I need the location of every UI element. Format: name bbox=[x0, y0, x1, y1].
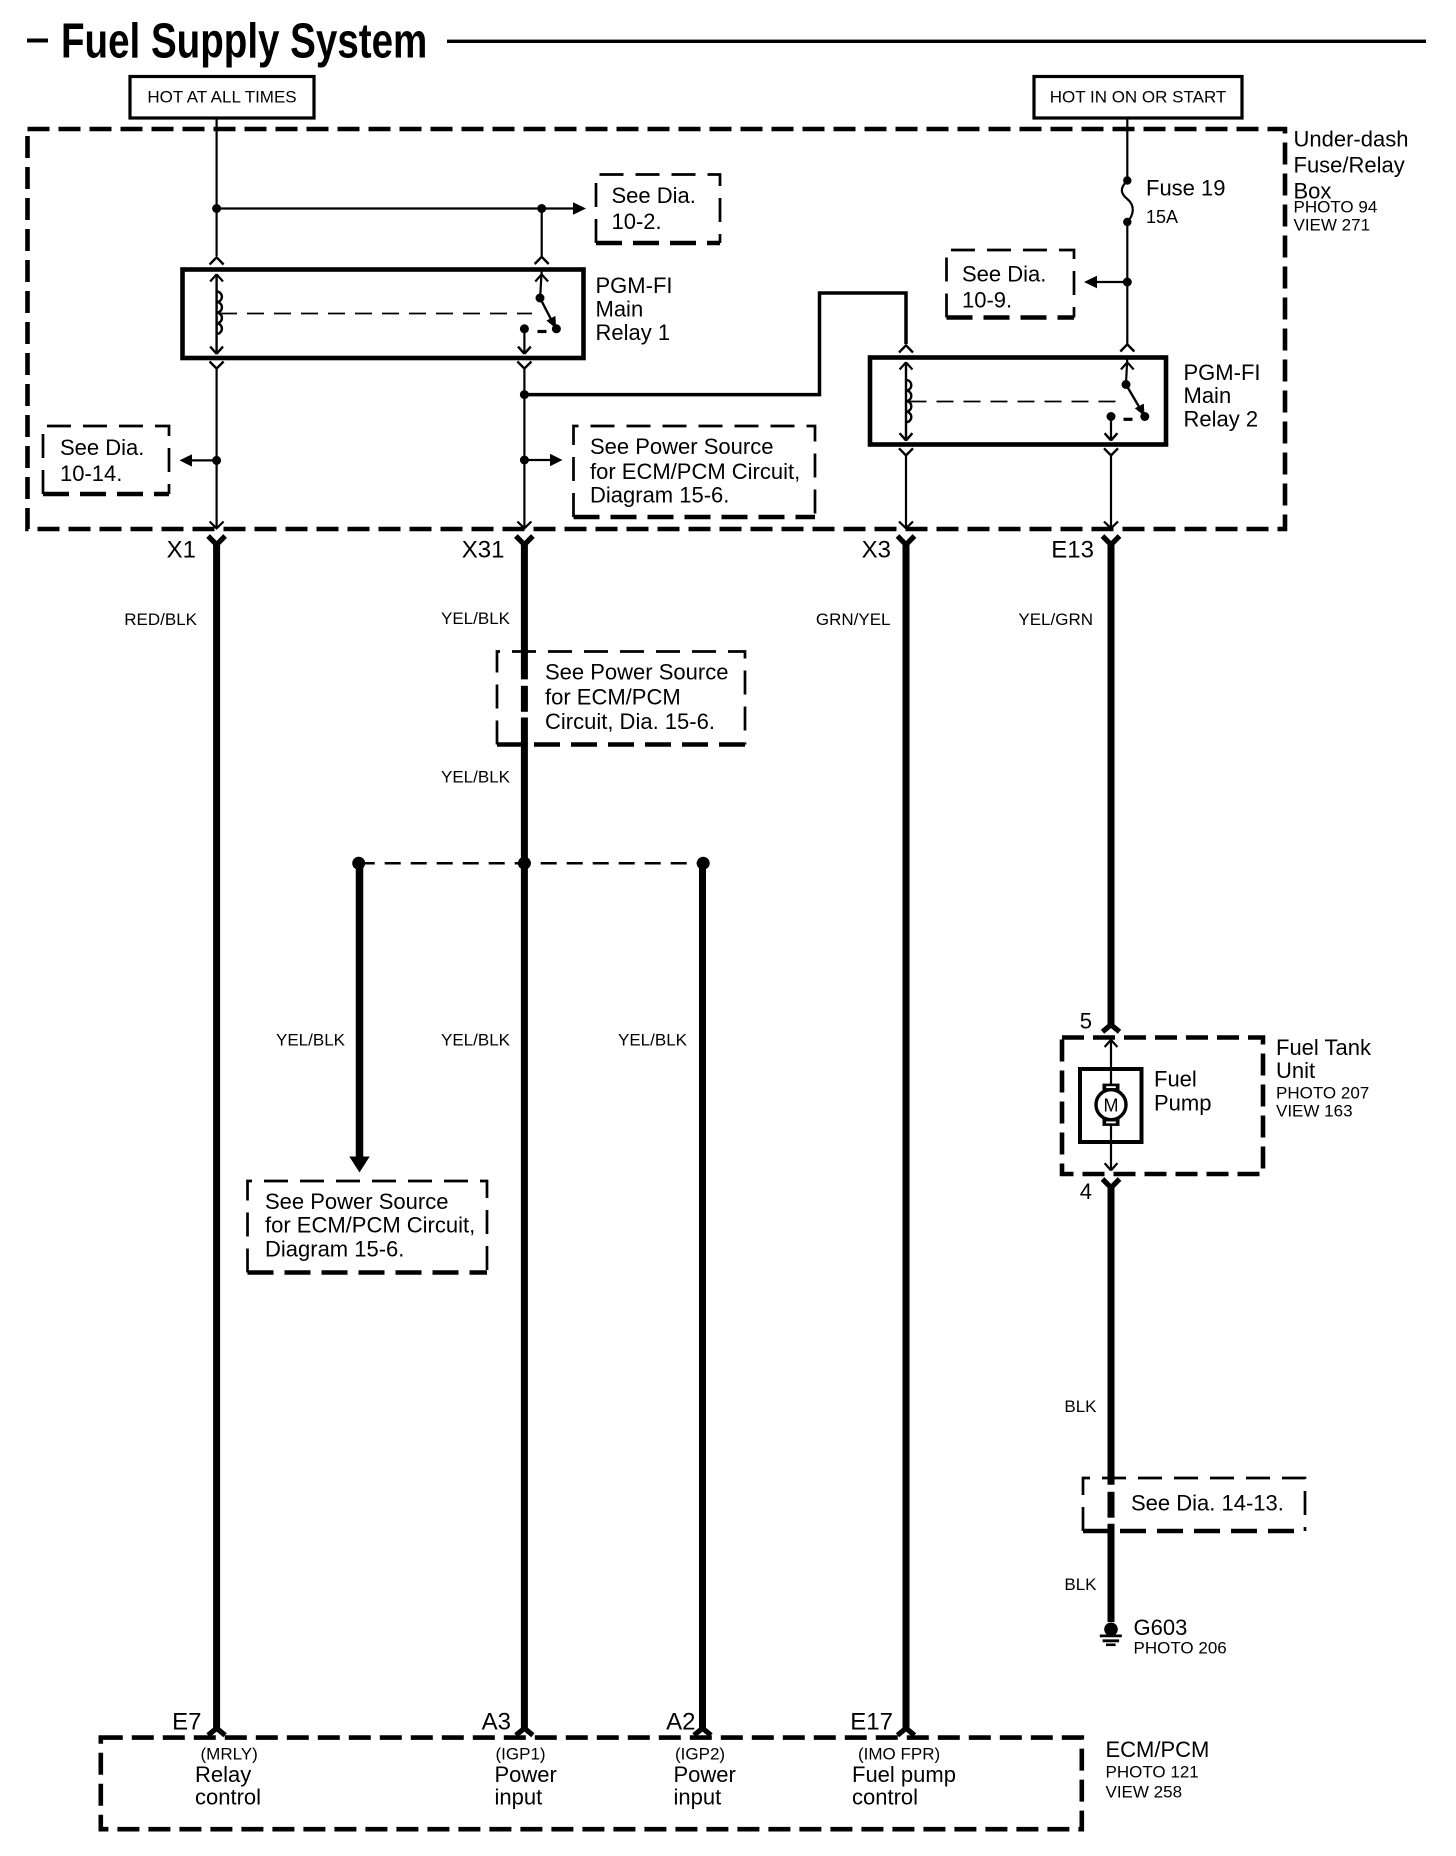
connector E17 (male) bbox=[898, 1728, 915, 1735]
svg-text:Main: Main bbox=[596, 297, 644, 322]
K1 coil bottom arrow bbox=[210, 347, 223, 354]
svg-text:A2: A2 bbox=[666, 1709, 695, 1736]
svg-text:X3: X3 bbox=[862, 537, 891, 564]
svg-text:RED/BLK: RED/BLK bbox=[124, 610, 197, 629]
wire: K1 coil bottom to X1 exit bbox=[216, 369, 218, 528]
svg-text:VIEW 163: VIEW 163 bbox=[1276, 1102, 1353, 1121]
K2 coil bottom arrow bbox=[900, 433, 913, 440]
svg-text:VIEW 258: VIEW 258 bbox=[1106, 1783, 1183, 1802]
svg-text:PHOTO 206: PHOTO 206 bbox=[1134, 1639, 1227, 1658]
wire: X31 to A3 (YEL/BLK), gapped through note box bbox=[521, 541, 528, 679]
svg-text:Fuse/Relay: Fuse/Relay bbox=[1294, 153, 1405, 178]
svg-text:Fuel: Fuel bbox=[1154, 1067, 1197, 1092]
K2 switch pivot bbox=[1122, 380, 1131, 389]
wire: fuel pump to pin 4 bbox=[1110, 1124, 1112, 1170]
svg-text:YEL/GRN: YEL/GRN bbox=[1018, 610, 1093, 629]
K2 output connector chevron below box bbox=[1104, 448, 1118, 455]
wire: right branch down to A2 bbox=[699, 863, 706, 1728]
svg-text:Unit: Unit bbox=[1276, 1058, 1315, 1083]
wire: branch to See Dia. 10-2 bbox=[217, 207, 574, 209]
svg-text:Fuel Supply System: Fuel Supply System bbox=[61, 14, 427, 68]
K1 coil top arrow bbox=[210, 274, 223, 281]
arrowhead into See Power Source box bbox=[550, 454, 563, 466]
label: PGM-FI Main Relay 1 bbox=[596, 273, 673, 345]
ground G603 symbol bbox=[1100, 1623, 1122, 1645]
K1 switch terminal connector (top chevron) bbox=[535, 257, 549, 264]
svg-text:control: control bbox=[852, 1785, 918, 1810]
svg-text:for ECM/PCM Circuit,: for ECM/PCM Circuit, bbox=[265, 1213, 475, 1238]
svg-text:15A: 15A bbox=[1146, 207, 1178, 227]
svg-text:PGM-FI: PGM-FI bbox=[1184, 360, 1261, 385]
pin function: (IMO FPR) Fuel pump control bbox=[852, 1745, 956, 1810]
fuse F19 bottom node bbox=[1123, 218, 1131, 226]
fuel tank unit dashed box bbox=[1062, 1038, 1263, 1175]
node: left branch junction bbox=[352, 857, 365, 870]
dashed tie line across branch junctions bbox=[359, 862, 704, 865]
connector X31 bbox=[516, 536, 533, 545]
connector X1 (female cup) bbox=[208, 536, 225, 545]
svg-text:Pump: Pump bbox=[1154, 1091, 1211, 1116]
svg-text:BLK: BLK bbox=[1064, 1397, 1097, 1416]
node: center branch junction bbox=[518, 857, 531, 870]
label: Fuel Pump bbox=[1154, 1067, 1211, 1116]
svg-text:YEL/BLK: YEL/BLK bbox=[441, 1031, 511, 1050]
K1 switch blade bbox=[540, 298, 554, 324]
wire: K2 output to E13 exit bbox=[1110, 455, 1112, 528]
connector pin 5 (male) at fuel tank bbox=[1103, 1025, 1120, 1032]
svg-text:E17: E17 bbox=[850, 1709, 893, 1736]
svg-text:(MRLY): (MRLY) bbox=[201, 1745, 258, 1764]
label box: HOT IN ON OR START bbox=[1034, 77, 1242, 119]
svg-text:Diagram 15-6.: Diagram 15-6. bbox=[265, 1237, 404, 1262]
connector A3 (male) bbox=[516, 1728, 533, 1735]
svg-text:Relay: Relay bbox=[195, 1762, 251, 1787]
svg-text:Relay 1: Relay 1 bbox=[596, 320, 671, 345]
K2 coil terminal connector (top chevron) bbox=[899, 345, 913, 352]
arrowhead into See Power Source note bbox=[349, 1157, 369, 1173]
K2 output bottom arrow bbox=[1105, 433, 1118, 440]
node: junction on feed wire bbox=[212, 204, 221, 213]
See Power Source for ECM/PCM Circuit Dia 15-6 dashed box (on X31 wire) bbox=[497, 652, 745, 745]
svg-text:See Power Source: See Power Source bbox=[265, 1189, 448, 1214]
svg-text:YEL/BLK: YEL/BLK bbox=[441, 609, 511, 628]
See Power Source for ECM/PCM Circuit Diagram 15-6 dashed box (lower) bbox=[248, 1181, 488, 1273]
K2 coil top arrow bbox=[900, 362, 913, 369]
svg-text:HOT AT ALL TIMES: HOT AT ALL TIMES bbox=[147, 88, 296, 107]
See Dia. 10-2. dashed box bbox=[596, 175, 720, 244]
wire: fuse to relay 2 switch bbox=[1126, 222, 1128, 344]
svg-text:PGM-FI: PGM-FI bbox=[596, 273, 673, 298]
node: right branch junction bbox=[697, 857, 710, 870]
svg-text:YEL/BLK: YEL/BLK bbox=[618, 1031, 688, 1050]
K2 actuation dashed link bbox=[910, 401, 1119, 403]
wire: K2 coil bottom to X3 exit bbox=[905, 455, 907, 528]
svg-text:X1: X1 bbox=[167, 537, 196, 564]
svg-text:See Dia.: See Dia. bbox=[962, 262, 1046, 287]
K1 actuation dashed link bbox=[220, 313, 532, 315]
svg-text:PHOTO 121: PHOTO 121 bbox=[1106, 1763, 1199, 1782]
K1 coil bottom connector chevron bbox=[210, 362, 224, 369]
svg-text:E13: E13 bbox=[1051, 537, 1094, 564]
svg-text:for ECM/PCM: for ECM/PCM bbox=[545, 685, 681, 710]
fuse F19 element bbox=[1122, 181, 1133, 223]
K2 blade tip node bbox=[1140, 412, 1149, 421]
arrowhead into See Dia. 10-14 bbox=[180, 454, 193, 466]
svg-text:Power: Power bbox=[674, 1762, 736, 1787]
connector X3 bbox=[898, 536, 915, 545]
title dash bbox=[27, 39, 48, 43]
See Dia. 10-9. dashed box bbox=[947, 250, 1075, 318]
label: G603 PHOTO 206 bbox=[1134, 1615, 1227, 1658]
svg-text:Diagram 15-6.: Diagram 15-6. bbox=[590, 483, 729, 508]
svg-text:X31: X31 bbox=[462, 537, 505, 564]
svg-text:Relay 2: Relay 2 bbox=[1184, 407, 1259, 432]
wire: pin 4 to ground (BLK), gapped through note box bbox=[1108, 1184, 1115, 1485]
arrow into fuel tank box bbox=[1105, 1040, 1118, 1047]
K2 output contact node bbox=[1107, 412, 1116, 421]
K2 contact gap dash bbox=[1124, 418, 1133, 421]
svg-text:YEL/BLK: YEL/BLK bbox=[276, 1031, 346, 1050]
K1 coil terminal connector (top chevron) bbox=[210, 257, 224, 264]
K1 switch common wire bbox=[540, 270, 541, 295]
svg-text:(IGP2): (IGP2) bbox=[675, 1745, 725, 1764]
svg-text:ECM/PCM: ECM/PCM bbox=[1106, 1737, 1210, 1762]
wire: into fuel pump bbox=[1110, 1040, 1112, 1087]
svg-text:Circuit, Dia. 15-6.: Circuit, Dia. 15-6. bbox=[545, 709, 715, 734]
connector pin 4 (female cup) bbox=[1103, 1179, 1120, 1188]
arrow at fuel tank box exit bbox=[1105, 1163, 1118, 1170]
svg-text:GRN/YEL: GRN/YEL bbox=[816, 610, 891, 629]
svg-text:control: control bbox=[195, 1785, 261, 1810]
title rule bbox=[447, 40, 1426, 43]
wire: branch to See Dia. 10-9 bbox=[1096, 281, 1127, 283]
label: Fuel Tank Unit bbox=[1276, 1035, 1372, 1121]
K1 output contact node bbox=[520, 324, 529, 333]
node: junction to See Dia. 10-9 bbox=[1123, 278, 1132, 287]
label box: HOT AT ALL TIMES bbox=[130, 77, 314, 119]
svg-text:PHOTO 207: PHOTO 207 bbox=[1276, 1084, 1369, 1103]
wire: X1 to E7 (RED/BLK) bbox=[213, 541, 220, 1728]
connector E13 bbox=[1103, 536, 1120, 545]
svg-text:A3: A3 bbox=[482, 1709, 511, 1736]
wire: branch stub to See Power Source box bbox=[524, 459, 551, 461]
svg-text:See Dia.: See Dia. bbox=[60, 435, 144, 460]
svg-text:See Power Source: See Power Source bbox=[545, 660, 728, 685]
svg-text:Main: Main bbox=[1184, 383, 1232, 408]
K1 blade tip node bbox=[552, 324, 561, 333]
fuse wire: hot-in-on-or-start feed down bbox=[1126, 118, 1128, 182]
K2 coil bbox=[905, 362, 907, 441]
wire: E13 to fuel tank (YEL/GRN) bbox=[1108, 541, 1115, 1025]
svg-text:10-14.: 10-14. bbox=[60, 461, 122, 486]
pin function: (MRLY) Relay control bbox=[195, 1745, 261, 1810]
svg-text:See Dia.: See Dia. bbox=[612, 183, 696, 208]
svg-text:See Power Source: See Power Source bbox=[590, 434, 773, 459]
svg-text:input: input bbox=[674, 1785, 722, 1810]
wire: L-path feed to relay 2 coil bbox=[524, 293, 906, 395]
See Power Source for ECM/PCM Circuit Diagram 15-6 dashed box bbox=[574, 426, 816, 517]
svg-text:(IGP1): (IGP1) bbox=[496, 1745, 546, 1764]
K2 switch terminal connector (top chevron) bbox=[1120, 344, 1134, 351]
connector A2 (male) bbox=[694, 1728, 711, 1735]
ECM/PCM dashed box bbox=[101, 1738, 1082, 1830]
K1 coil L1 bbox=[215, 274, 217, 354]
K1 contact gap dash bbox=[538, 330, 547, 333]
svg-text:M: M bbox=[1104, 1095, 1119, 1115]
svg-text:5: 5 bbox=[1080, 1009, 1092, 1034]
under-dash fuse/relay box (dashed enclosure) bbox=[28, 129, 1286, 529]
border arrowheads at X1 X31 X3 E13 exits bbox=[210, 522, 224, 529]
node: branch to See Power Source bbox=[520, 456, 529, 465]
K2 switch common wire bbox=[1126, 358, 1127, 382]
motor M1: commutator tabs bbox=[1103, 1084, 1120, 1091]
connector E7 (male) bbox=[208, 1728, 225, 1735]
K1 output wire bbox=[523, 329, 525, 354]
svg-text:Power: Power bbox=[495, 1762, 557, 1787]
wire: K1 output down to X31 exit bbox=[523, 369, 525, 528]
svg-text:Under-dash: Under-dash bbox=[1294, 127, 1409, 152]
svg-text:Fuel pump: Fuel pump bbox=[852, 1762, 956, 1787]
relay K2: PGM-FI Main Relay 2 box bbox=[870, 358, 1166, 445]
relay K1: PGM-FI Main Relay 1 box bbox=[183, 270, 584, 359]
svg-text:input: input bbox=[495, 1785, 543, 1810]
node: branch to See Dia. 10-14 bbox=[212, 456, 221, 465]
svg-text:10-9.: 10-9. bbox=[962, 288, 1012, 313]
svg-text:E7: E7 bbox=[172, 1709, 201, 1736]
wire: left branch down to note arrow bbox=[356, 863, 364, 1157]
label: PGM-FI Main Relay 2 bbox=[1184, 360, 1261, 432]
K2 coil bottom connector chevron bbox=[899, 448, 913, 455]
motor M1: circle bbox=[1096, 1090, 1126, 1120]
K1 output bottom arrow bbox=[518, 347, 531, 354]
K2 switch blade bbox=[1126, 385, 1142, 412]
arrowhead into See Dia. 10-2 bbox=[573, 202, 586, 215]
svg-text:HOT IN ON OR START: HOT IN ON OR START bbox=[1050, 88, 1227, 107]
svg-text:See Dia. 14-13.: See Dia. 14-13. bbox=[1131, 1491, 1284, 1516]
K2 output wire bbox=[1110, 417, 1112, 441]
label: Under-dash Fuse/Relay Box bbox=[1294, 127, 1409, 235]
fuse F19 top node bbox=[1123, 176, 1131, 184]
label: ECM/PCM PHOTO 121 VIEW 258 bbox=[1106, 1737, 1210, 1802]
svg-text:YEL/BLK: YEL/BLK bbox=[441, 768, 511, 787]
svg-text:VIEW 271: VIEW 271 bbox=[1294, 216, 1371, 235]
See Dia. 14-13. dashed box bbox=[1083, 1478, 1305, 1531]
node: junction above relay 1 switch bbox=[537, 204, 546, 213]
svg-text:for ECM/PCM Circuit,: for ECM/PCM Circuit, bbox=[590, 459, 800, 484]
K1 output connector chevron below box bbox=[517, 362, 531, 369]
node: junction to relay 2 coil feed bbox=[520, 390, 529, 399]
wire: X3 to E17 (GRN/YEL) bbox=[903, 541, 910, 1728]
svg-text:Fuel Tank: Fuel Tank bbox=[1276, 1035, 1372, 1060]
svg-text:PHOTO 94: PHOTO 94 bbox=[1294, 198, 1378, 217]
svg-text:G603: G603 bbox=[1134, 1615, 1188, 1640]
pin function: (IGP1) Power input bbox=[495, 1745, 557, 1810]
pin function: (IGP2) Power input bbox=[674, 1745, 736, 1810]
wire: down to relay 1 switch terminal bbox=[541, 209, 543, 257]
svg-text:Fuse 19: Fuse 19 bbox=[1146, 176, 1226, 201]
wire: hot-at-all-times feed down to relay 1 bbox=[216, 118, 218, 256]
svg-text:10-2.: 10-2. bbox=[612, 209, 662, 234]
svg-text:BLK: BLK bbox=[1064, 1575, 1097, 1594]
svg-text:(IMO FPR): (IMO FPR) bbox=[858, 1745, 940, 1764]
See Dia. 10-14. dashed box bbox=[43, 426, 169, 494]
K1 switch pivot bbox=[536, 294, 545, 303]
svg-text:4: 4 bbox=[1080, 1179, 1092, 1204]
fuel pump box bbox=[1080, 1069, 1142, 1142]
arrowhead into See Dia. 10-9 bbox=[1084, 276, 1097, 289]
wire: branch stub to See Dia. 10-14 bbox=[190, 459, 217, 461]
